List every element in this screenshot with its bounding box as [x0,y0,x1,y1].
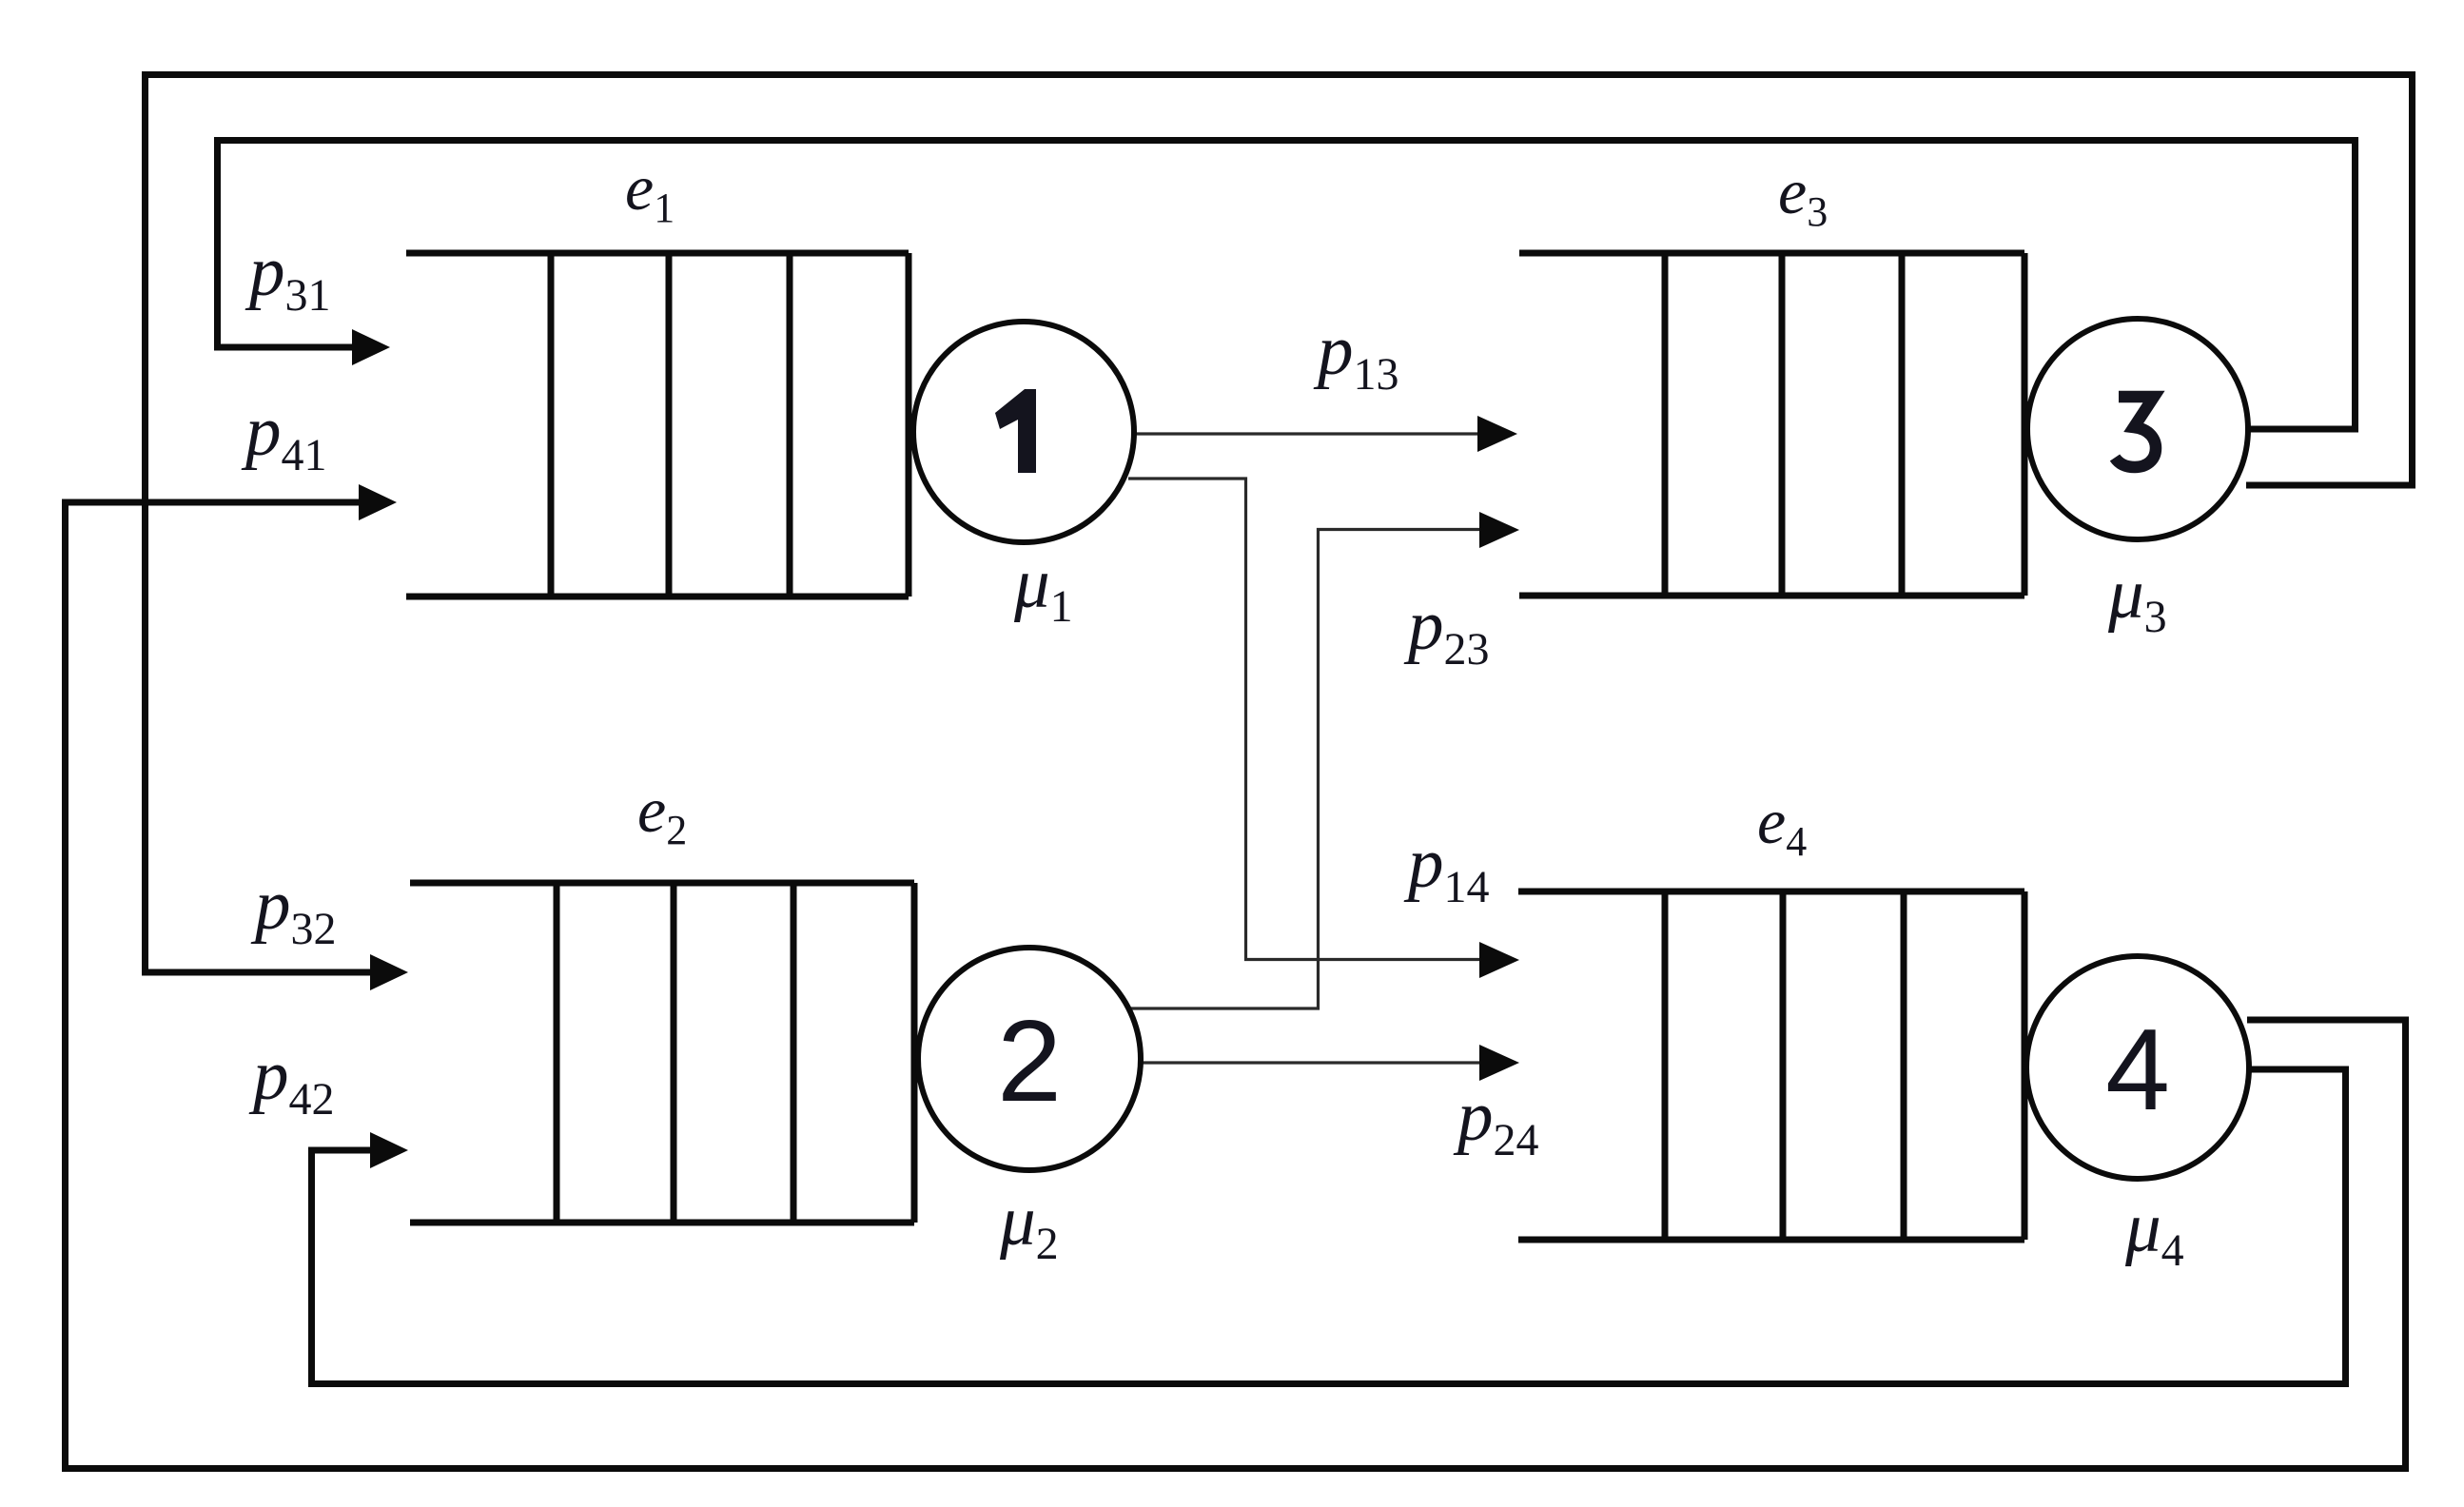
wire p42 loop (server 4 lower output, inner bottom loop, into queue e2) [312,1069,2346,1384]
server 2 circle [918,948,1141,1170]
arrowhead p31 [352,329,390,365]
wire p41 loop (server 4 upper output, around outer bottom, into queue e1) [66,502,2406,1469]
queue e1 (buffer with slots) [406,253,909,597]
queue e2 (buffer with slots) [410,883,914,1223]
server 3 circle [2027,319,2248,539]
wire p24 (server 2 to queue e4) [1139,1061,1482,1064]
arrowhead p32 [370,954,408,990]
queue e3 (buffer with slots) [1519,253,2024,596]
queue e4 (buffer with slots) [1518,891,2024,1240]
arrowhead p14 [1479,942,1519,978]
arrowhead p24 [1479,1045,1519,1081]
wire p14 (server 1 down and right to queue e4) [1128,479,1482,960]
server 3 number [2115,397,2156,467]
server 4 circle [2026,956,2249,1179]
arrowhead p13 [1477,416,1517,452]
arrowhead p42 [370,1132,408,1168]
wire p13 (server 1 to queue e3) [1133,432,1480,435]
server 1 number [995,389,1036,473]
wire p32 loop (server 3 lower output, around outer top-left, into queue e2) [146,75,2413,973]
server 1 circle [913,322,1134,542]
svg-text:2: 2 [997,996,1062,1125]
svg-text:4: 4 [2105,1005,2170,1134]
arrowhead p23 [1479,512,1519,548]
wire p23 (server 2 up and right to queue e3) [1130,530,1482,1009]
arrowhead p41 [359,484,397,520]
wire p31 loop (server 3 upper output, inner top loop, into queue e1) [218,141,2356,430]
